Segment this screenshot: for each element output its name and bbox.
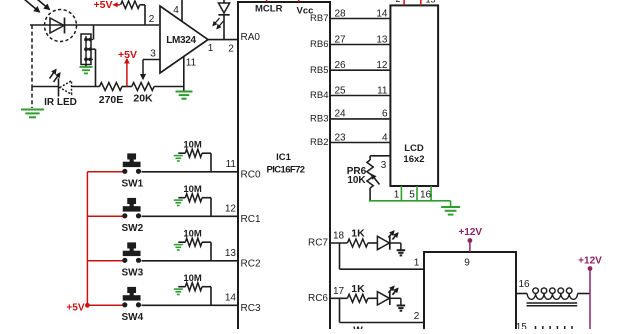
svg-text:14: 14 [376,8,388,19]
svg-text:4: 4 [382,132,388,143]
svg-text:SW3: SW3 [122,268,144,279]
svg-text:13: 13 [376,34,388,45]
svg-text:RB4: RB4 [310,90,328,101]
svg-text:RC6: RC6 [308,293,328,304]
svg-text:RC7: RC7 [308,238,328,249]
svg-text:2: 2 [414,311,420,322]
svg-text:+5V: +5V [118,49,137,61]
svg-text:RB2: RB2 [310,137,328,148]
svg-text:12: 12 [376,60,388,71]
svg-text:270E: 270E [99,94,124,106]
svg-text:10K: 10K [347,175,366,186]
svg-text:RB5: RB5 [310,65,328,76]
svg-text:13: 13 [225,248,237,259]
svg-text:LCD: LCD [404,143,424,154]
svg-text:MCLR: MCLR [255,4,283,15]
svg-text:+5V: +5V [66,303,84,314]
svg-text:20K: 20K [133,93,153,105]
svg-text:23: 23 [335,132,347,143]
svg-text:28: 28 [335,8,347,19]
svg-text:RC2: RC2 [241,258,261,269]
svg-text:1K: 1K [351,283,365,295]
svg-text:+12V: +12V [458,227,482,238]
svg-text:RC3: RC3 [241,303,261,314]
svg-text:SW4: SW4 [122,312,144,323]
svg-text:26: 26 [335,60,347,71]
svg-text:10M: 10M [183,184,202,195]
svg-text:RC1: RC1 [241,214,261,225]
svg-text:9: 9 [464,258,470,269]
svg-text:LM324: LM324 [166,35,196,46]
svg-text:11: 11 [377,85,388,96]
svg-text:2: 2 [228,44,234,55]
svg-text:11: 11 [186,58,197,69]
svg-text:16: 16 [420,190,432,201]
svg-text:RC0: RC0 [241,169,261,180]
svg-text:+12V: +12V [578,256,602,267]
svg-text:14: 14 [225,293,237,304]
svg-text:10M: 10M [183,229,202,240]
svg-text:1: 1 [414,258,420,269]
svg-text:1: 1 [208,43,214,54]
svg-text:16: 16 [518,279,530,290]
svg-text:10M: 10M [183,140,202,151]
svg-text:6: 6 [382,109,388,120]
svg-text:+5V: +5V [94,0,113,11]
svg-text:SW2: SW2 [122,223,144,234]
svg-text:RB6: RB6 [310,39,328,50]
svg-text:RB3: RB3 [310,114,328,125]
svg-text:25: 25 [335,85,347,96]
svg-text:2: 2 [395,0,400,4]
svg-text:4: 4 [173,5,179,16]
svg-text:3: 3 [381,160,387,171]
svg-text:24: 24 [335,109,347,120]
svg-text:27: 27 [335,34,347,45]
svg-text:1K: 1K [351,228,365,240]
svg-text:16x2: 16x2 [403,154,424,165]
svg-text:5: 5 [409,190,415,201]
svg-text:18: 18 [333,231,345,242]
svg-text:15: 15 [426,0,436,5]
svg-text:RA0: RA0 [241,32,261,43]
svg-text:10M: 10M [183,273,202,284]
svg-text:3: 3 [150,49,156,60]
svg-text:PIC16F72: PIC16F72 [267,165,305,176]
svg-text:RB7: RB7 [310,13,328,24]
svg-text:1: 1 [394,190,400,201]
svg-text:17: 17 [333,286,345,297]
svg-text:W: W [353,326,363,330]
svg-text:11: 11 [226,159,237,170]
svg-text:IC1: IC1 [276,152,292,163]
svg-text:SW1: SW1 [122,179,144,190]
svg-text:IR LED: IR LED [44,97,77,108]
svg-text:15: 15 [516,322,528,329]
svg-text:2: 2 [149,14,155,25]
svg-text:12: 12 [225,204,237,215]
